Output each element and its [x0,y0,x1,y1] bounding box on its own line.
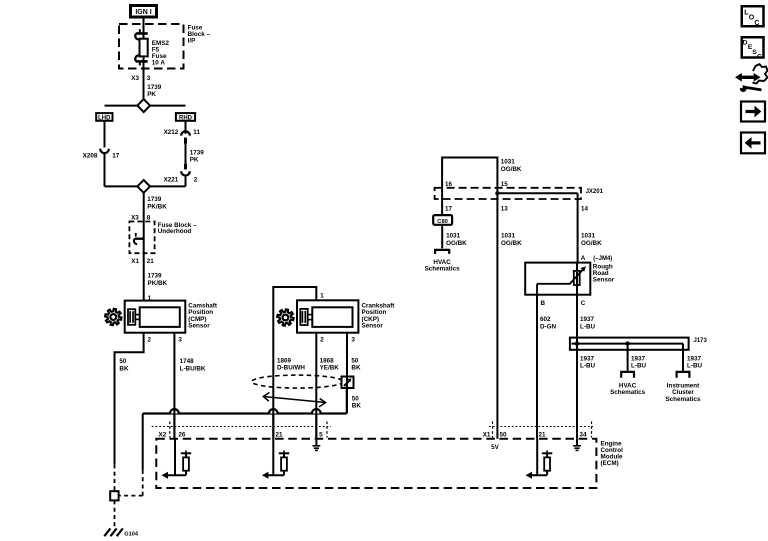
svg-text:1031: 1031 [446,233,461,240]
svg-text:1868: 1868 [320,357,335,364]
svg-text:14: 14 [581,205,589,212]
svg-text:1869: 1869 [277,357,292,364]
svg-text:1739: 1739 [147,84,162,91]
svg-text:602: 602 [540,316,551,323]
svg-text:L-BU: L-BU [687,363,702,370]
svg-text:2: 2 [320,337,324,344]
svg-text:D-GN: D-GN [540,323,557,330]
svg-text:1031: 1031 [581,233,596,240]
svg-text:11: 11 [193,129,200,136]
svg-text:C: C [754,20,759,27]
svg-text:X3: X3 [131,75,139,82]
svg-text:50: 50 [119,358,127,365]
svg-text:1937: 1937 [687,355,702,362]
svg-text:I/P: I/P [188,38,196,45]
svg-text:B: B [541,300,546,307]
svg-text:(–JM4): (–JM4) [593,256,612,262]
svg-text:3: 3 [351,337,355,344]
svg-text:17: 17 [445,205,453,212]
svg-text:2: 2 [148,337,152,344]
svg-text:1937: 1937 [580,316,595,323]
svg-text:1739: 1739 [148,272,163,279]
svg-text:Sensor: Sensor [593,277,615,284]
svg-text:X1: X1 [131,258,139,265]
svg-text:PK: PK [190,157,199,164]
svg-text:1031: 1031 [501,233,516,240]
svg-text:PK/BK: PK/BK [147,203,167,210]
svg-text:5: 5 [319,432,323,439]
svg-text:8: 8 [147,214,151,221]
svg-text:JX201: JX201 [586,189,604,195]
svg-text:L-BU: L-BU [631,363,646,370]
svg-text:YE/BK: YE/BK [320,365,340,372]
svg-text:13: 13 [501,205,509,212]
svg-text:G104: G104 [124,531,139,537]
svg-text:L-BU: L-BU [580,323,595,330]
svg-text:1: 1 [320,292,324,299]
svg-text:L-BU/BK: L-BU/BK [180,365,206,372]
svg-text:21: 21 [276,432,284,439]
svg-text:OG/BK: OG/BK [446,240,467,247]
svg-text:3: 3 [178,337,182,344]
svg-text:1748: 1748 [180,358,195,365]
svg-text:Sensor: Sensor [188,322,210,329]
svg-text:PK/BK: PK/BK [148,280,168,287]
svg-text:D-BU/WH: D-BU/WH [277,365,305,372]
svg-text:PK: PK [147,91,156,98]
svg-text:21: 21 [147,258,155,265]
svg-text:OG/BK: OG/BK [501,166,522,173]
svg-text:C: C [581,300,586,307]
svg-text:IGN I: IGN I [135,9,151,16]
svg-text:1937: 1937 [631,355,646,362]
svg-text:OG/BK: OG/BK [501,240,522,247]
svg-text:OG/BK: OG/BK [581,240,602,247]
svg-text:Schematics: Schematics [610,389,645,396]
svg-text:50: 50 [500,432,508,439]
svg-text:(ECM): (ECM) [601,460,619,467]
svg-text:Sensor: Sensor [362,322,384,329]
svg-text:1739: 1739 [190,150,205,157]
svg-text:Schematics: Schematics [665,396,700,403]
svg-text:X208: X208 [83,152,98,159]
svg-text:X221: X221 [164,176,179,183]
svg-text:3: 3 [147,75,151,82]
svg-text:C80: C80 [437,219,448,225]
svg-text:50: 50 [351,357,359,364]
svg-text:J173: J173 [694,338,708,344]
svg-text:10 A: 10 A [152,59,166,66]
svg-text:21: 21 [539,432,547,439]
svg-text:Schematics: Schematics [425,265,460,272]
svg-text:X1: X1 [483,432,491,439]
svg-text:50: 50 [352,395,360,402]
svg-text:X3: X3 [131,214,139,221]
svg-text:17: 17 [112,152,120,159]
svg-text:1739: 1739 [147,196,162,203]
svg-text:26: 26 [178,432,186,439]
svg-text:BK: BK [351,365,361,372]
svg-text:Underhood: Underhood [158,228,192,235]
svg-text:1937: 1937 [580,355,595,362]
svg-text:LHD: LHD [98,115,111,121]
svg-text:A: A [581,255,586,262]
svg-text:BK: BK [119,365,129,372]
svg-text:34: 34 [580,432,588,439]
svg-text:C: C [757,54,762,61]
svg-text:X2: X2 [159,432,167,439]
svg-text:RHD: RHD [179,115,193,121]
svg-text:X212: X212 [164,129,179,136]
svg-text:1031: 1031 [501,159,516,166]
svg-text:5V: 5V [491,444,500,451]
svg-text:2: 2 [194,176,198,183]
svg-text:BK: BK [352,403,362,410]
svg-text:L-BU: L-BU [580,363,595,370]
